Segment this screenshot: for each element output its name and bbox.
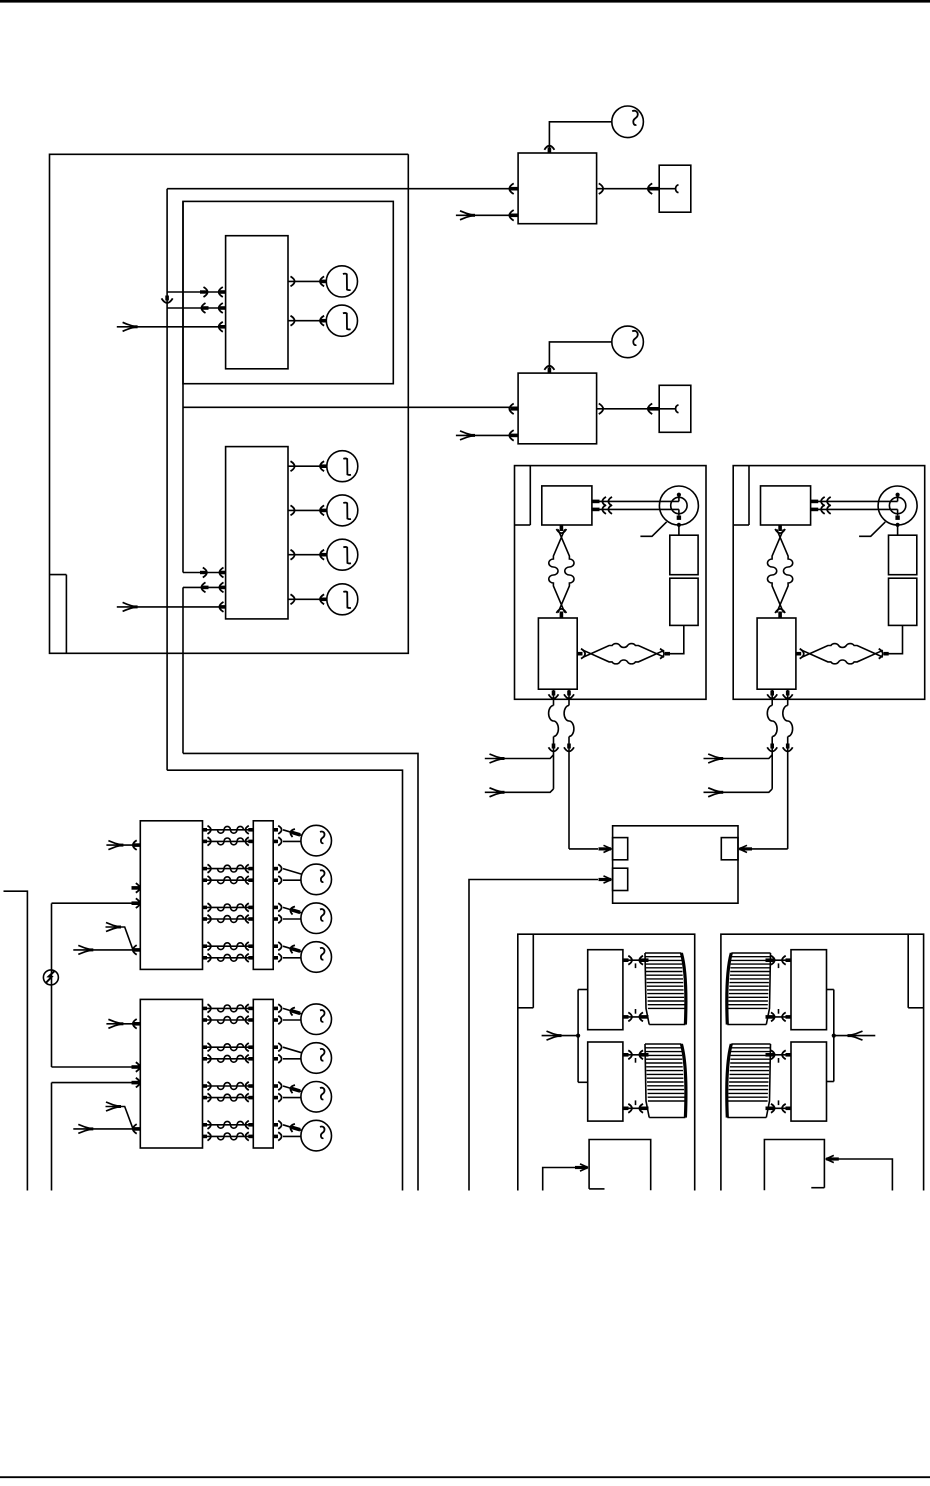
wire: driver input A <box>106 844 140 846</box>
wire: strip to solenoid (upper) <box>273 1084 278 1088</box>
run capacitor box <box>761 486 811 525</box>
connector receptacle <box>659 165 691 212</box>
terminal block <box>538 618 577 689</box>
relay box <box>518 153 597 224</box>
wire: module bus to heater area (outer) <box>183 753 418 1190</box>
run capacitor box <box>542 486 592 525</box>
wire: driver to strip <box>203 1046 254 1048</box>
junction <box>832 1034 836 1038</box>
wire: driver to strip <box>203 945 254 947</box>
wire: capacitor to motor 2 <box>592 508 679 510</box>
cabinet partition <box>532 934 534 1008</box>
igniter box bottom edge (cut) <box>811 1187 824 1189</box>
connector receptacle <box>659 385 691 432</box>
indicator lamp E6 <box>327 584 358 615</box>
wire: strip to solenoid (lower) <box>273 956 278 960</box>
fan unit enclosure <box>733 466 925 700</box>
AC source symbol <box>612 106 644 138</box>
wire: external feed to lead 1 <box>704 755 773 759</box>
wire: strip to solenoid (upper) <box>273 867 278 871</box>
wire: page-left feed <box>4 891 28 1190</box>
wire: A2 to lamp E3 <box>288 465 327 467</box>
wire: H1 to HE1 upper <box>623 959 649 961</box>
wire: external feed to lead 1 <box>485 755 554 759</box>
terminal strip <box>253 999 273 1148</box>
wire: A1 to lamp E1 <box>288 280 327 282</box>
terminal stub <box>132 886 140 890</box>
wire: driver to strip <box>203 1019 254 1021</box>
wire: relay input 2 (external) <box>456 434 518 436</box>
heater element stack HE4 <box>731 1043 770 1045</box>
wire: A1 pin 3 (external) <box>117 326 226 328</box>
timer pin block 1 <box>613 838 628 860</box>
wire: capacitor to motor 1 <box>811 500 898 502</box>
wire: terminal block lead 2 <box>568 689 570 705</box>
flow arrow (down) on feed bus <box>165 296 169 301</box>
wire: A1 pin 2 <box>167 307 226 309</box>
wire: relay supply bus (left) <box>577 990 579 1083</box>
indicator lamp E4 <box>327 495 358 526</box>
wire: dispenser ground run <box>51 903 53 1067</box>
heater element stack HE1 <box>645 952 681 954</box>
wire: driver input C <box>52 1082 141 1084</box>
timer pin block 2 <box>613 868 628 890</box>
wire: strip to solenoid (upper) <box>273 828 278 832</box>
indicator lamp E5 <box>327 539 358 570</box>
fan motor <box>659 486 698 525</box>
socket contact <box>676 405 679 413</box>
wire: driver to strip <box>203 868 254 870</box>
heater relay H3 <box>791 950 827 1030</box>
enclosure partition <box>748 466 750 525</box>
page footer rule <box>0 1476 930 1478</box>
relay box <box>518 373 597 444</box>
wire: strip to solenoid (lower) <box>273 1135 278 1139</box>
indicator lamp E3 <box>327 451 358 482</box>
heater relay H4 <box>791 1042 827 1121</box>
wire: relay to AC source <box>549 122 611 153</box>
valve solenoid V4 <box>301 942 332 973</box>
wire: strip to solenoid (upper) <box>273 1045 278 1049</box>
junction <box>576 1034 580 1038</box>
control board A2 <box>226 447 288 619</box>
wire: driver to strip <box>203 918 254 920</box>
valve solenoid V3 <box>301 1082 332 1113</box>
fan unit enclosure <box>515 466 707 700</box>
wire: relay input 1 (arrow) <box>509 183 513 194</box>
wire: A2 pin 3 (external) <box>117 606 226 608</box>
wire: cutout to harness <box>667 625 684 653</box>
cabinet partition (right) <box>907 934 909 1008</box>
heater element stack HE3 <box>731 952 770 954</box>
wire: H4 to HE4 lower <box>766 1107 791 1109</box>
timer module <box>613 826 738 903</box>
wire: supply feed (right) <box>834 1035 876 1037</box>
wire: strip to solenoid (lower) <box>273 1057 278 1061</box>
wire: strip to solenoid (lower) <box>273 878 278 882</box>
terminal strip <box>253 821 273 970</box>
wire: driver input A <box>106 1023 140 1025</box>
wire: driver input C <box>52 1066 141 1068</box>
dispenser driver board <box>140 999 202 1148</box>
wire: driver to strip <box>203 829 254 831</box>
wire: H2 to HE2 upper <box>623 1054 649 1056</box>
igniter box (right) <box>764 1140 824 1191</box>
wire: H3 to HE3 lower <box>766 1016 791 1018</box>
thermal cutout block <box>670 578 698 625</box>
wire: H4 to HE4 upper <box>766 1054 791 1056</box>
wire: terminal block lead 1 <box>553 689 555 705</box>
dispenser driver board <box>140 821 202 970</box>
wire: feed to relay box K2 <box>183 406 518 408</box>
wire: supply feed (left) <box>542 1035 579 1037</box>
wire: driver to strip <box>203 840 254 842</box>
wire: relay to AC source <box>549 342 611 373</box>
wire: strip to solenoid (lower) <box>273 840 278 844</box>
AC source symbol <box>612 326 644 358</box>
wire: terminal block lead 1 <box>771 689 773 705</box>
heater cabinet (left) <box>518 934 695 1190</box>
enclosure partition <box>529 466 531 525</box>
wire: relay input 1 (arrow) <box>509 404 513 415</box>
wire: driver input D (merges) <box>106 1107 133 1129</box>
wire: relay output to connector <box>597 408 675 410</box>
wire: relay output to connector <box>597 188 675 190</box>
wire: driver to strip <box>203 906 254 908</box>
indicator lamp E1 <box>326 266 357 297</box>
harness (horizontal) <box>802 644 883 658</box>
wire: cutout to harness <box>885 625 902 653</box>
inner module frame (upper) <box>183 201 393 383</box>
wire: fan 1 lead to timer <box>569 848 598 850</box>
wire: strip to solenoid (lower) <box>273 1096 278 1100</box>
valve solenoid V1 <box>301 825 332 856</box>
wire: fan 2 lead to timer <box>751 848 788 850</box>
wire: feed to igniter (right) <box>838 1159 892 1191</box>
centrifugal switch lever <box>640 522 666 536</box>
wire: external line to timer <box>469 880 598 1191</box>
thermal fuse block <box>889 535 917 575</box>
wire: feed to igniter (left) <box>543 1168 577 1191</box>
terminal block <box>757 618 796 689</box>
wire: strip to solenoid (upper) <box>273 1123 278 1127</box>
heater relay H1 <box>588 950 623 1030</box>
wire: driver to strip <box>203 957 254 959</box>
wire: driver input E <box>73 1128 140 1130</box>
valve solenoid V1 <box>301 1004 332 1035</box>
fan motor <box>878 486 917 525</box>
wire: feed bus to heater area (inner) <box>167 770 402 1190</box>
wire: dispenser return run <box>51 1083 53 1191</box>
wire: driver to strip <box>203 1097 254 1099</box>
wire: driver input C <box>52 902 141 904</box>
wire: driver to strip <box>203 1124 254 1126</box>
wire: strip to solenoid (upper) <box>273 906 278 910</box>
wire: driver to strip <box>203 1085 254 1087</box>
valve solenoid V2 <box>301 864 332 895</box>
page header bar <box>0 0 930 3</box>
wire: strip to solenoid (upper) <box>273 1007 278 1011</box>
wire: driver to strip <box>203 1007 254 1009</box>
valve solenoid V3 <box>301 903 332 934</box>
wire: H1 to HE1 lower <box>623 1016 649 1018</box>
wire: control feed bus (vertical) <box>166 189 168 771</box>
wire: strip to solenoid (upper) <box>273 944 278 948</box>
wire: relay input 2 (external) <box>456 214 518 216</box>
wire: strip to solenoid (lower) <box>273 917 278 921</box>
harness (vertical) <box>549 529 565 612</box>
valve solenoid V4 <box>301 1120 332 1151</box>
wire: A2 to lamp E5 <box>288 554 327 556</box>
wire: driver input D (merges) <box>106 927 133 949</box>
harness (vertical) <box>768 529 784 612</box>
timer pin block 3 <box>721 838 738 860</box>
wire: strip to solenoid (lower) <box>273 1018 278 1022</box>
heater relay H2 <box>588 1042 623 1121</box>
wire: A2 pin 1 <box>183 572 226 574</box>
wire: motor to thermal fuse <box>678 525 680 535</box>
wire: module bus (vertical) <box>182 201 184 572</box>
wire: A2 to lamp E6 <box>288 598 327 600</box>
igniter box (left) <box>589 1140 651 1191</box>
wire: capacitor to motor 2 <box>811 508 898 510</box>
wire: feed to relay box K1 <box>167 188 518 190</box>
valve solenoid V2 <box>301 1043 332 1074</box>
control board A1 <box>226 236 288 369</box>
wire: capacitor to motor 1 <box>592 500 679 502</box>
socket contact <box>676 185 679 193</box>
wire: terminal block lead 2 <box>787 689 789 705</box>
wire: A2 to lamp E4 <box>288 509 327 511</box>
wire: driver to strip <box>203 1135 254 1137</box>
cabinet enclosure (top-left) <box>50 154 409 653</box>
harness (horizontal) <box>583 644 664 658</box>
wire: A2 pin 2 <box>183 586 226 588</box>
heater element stack HE2 <box>645 1043 681 1045</box>
thermal fuse block <box>670 535 698 575</box>
igniter box bottom edge (cut) <box>589 1188 604 1190</box>
heater cabinet (right) <box>721 934 924 1190</box>
wire: A1 to lamp E2 <box>288 320 327 322</box>
wire: driver to strip <box>203 879 254 881</box>
thermal cutout block <box>889 578 917 625</box>
wire: A1 pin 1 <box>167 291 226 293</box>
wire: driver to strip <box>203 1058 254 1060</box>
wire: relay supply bus (right) <box>833 990 835 1082</box>
wire: H3 to HE3 upper <box>766 959 791 961</box>
centrifugal switch lever <box>859 522 885 536</box>
wire: H2 to HE2 lower <box>623 1107 649 1109</box>
wire: motor to thermal fuse <box>897 525 899 535</box>
line fuse <box>43 970 58 985</box>
cabinet inner partition (bottom-left) <box>50 574 67 576</box>
wire: driver input E <box>73 949 140 951</box>
indicator lamp E2 <box>326 305 357 336</box>
